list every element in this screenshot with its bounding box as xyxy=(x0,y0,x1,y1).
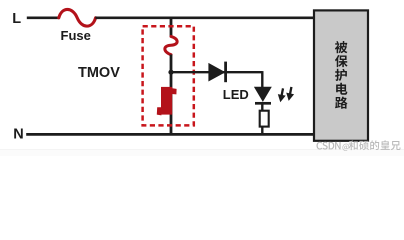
TMOV thermal fuse squiggle xyxy=(165,36,177,54)
fuse F1 squiggle xyxy=(59,9,96,26)
wire: L line right segment xyxy=(95,16,314,19)
svg-text:TMOV: TMOV xyxy=(78,65,120,81)
resistor R1 xyxy=(260,111,269,127)
wire: LED to resistor xyxy=(261,103,263,111)
wire: TMOV vertical branch upper segment xyxy=(170,17,173,37)
wire: L line left segment xyxy=(27,16,59,19)
wire: LED branch vertical top xyxy=(261,71,263,87)
wire: resistor to N line xyxy=(261,127,263,135)
TMOV dashed enclosure box xyxy=(143,26,194,125)
LED emission arrow 1 xyxy=(276,88,287,103)
varistor MOV body (red) xyxy=(157,87,177,116)
LED D2 cathode bar xyxy=(255,102,271,105)
svg-text:Fuse: Fuse xyxy=(61,28,91,43)
wire: N line xyxy=(26,133,314,136)
label 被保护电路 (vertical) xyxy=(335,41,348,109)
diode D1 cathode bar xyxy=(224,62,227,83)
diode D1 triangle xyxy=(208,63,225,82)
LED emission arrow 2 xyxy=(285,86,296,101)
svg-text:LED: LED xyxy=(223,87,249,102)
junction dot at diode tap xyxy=(168,70,173,75)
svg-text:L: L xyxy=(12,11,21,27)
wire: diode branch horizontal xyxy=(171,71,262,73)
faint footer strip xyxy=(0,150,404,156)
protected circuit block (被保护电路) xyxy=(314,10,368,140)
wire: TMOV vertical branch middle segment xyxy=(170,55,173,135)
watermark CSDN @和硕的皇兄 xyxy=(316,140,400,150)
LED D2 triangle xyxy=(254,87,272,102)
svg-text:N: N xyxy=(13,127,23,143)
